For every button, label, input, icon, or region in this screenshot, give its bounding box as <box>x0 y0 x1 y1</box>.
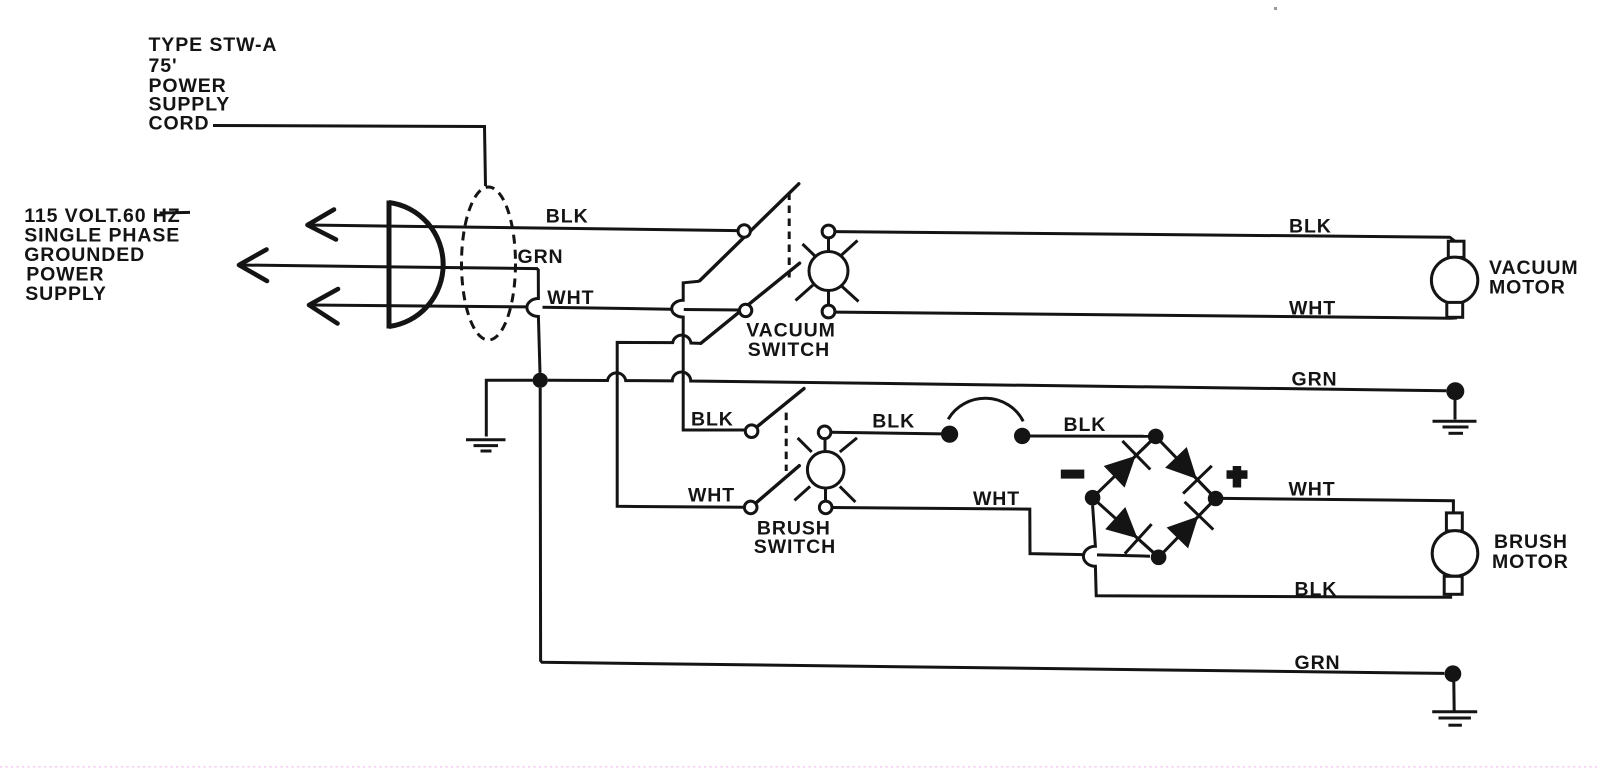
svg-text:BLK: BLK <box>872 411 915 433</box>
svg-text:GRN: GRN <box>1292 368 1338 390</box>
svg-text:WHT: WHT <box>547 287 594 309</box>
svg-text:TYPE STW-A: TYPE STW-A <box>149 34 278 56</box>
svg-text:GRN: GRN <box>1295 652 1341 674</box>
svg-text:SWITCH: SWITCH <box>754 536 836 558</box>
svg-text:BLK: BLK <box>691 409 734 431</box>
svg-text:BLK: BLK <box>1295 578 1338 600</box>
svg-text:GRN: GRN <box>518 246 564 268</box>
svg-text:75': 75' <box>149 55 178 77</box>
svg-text:WHT: WHT <box>1289 478 1336 500</box>
svg-text:MOTOR: MOTOR <box>1489 276 1566 298</box>
svg-text:WHT: WHT <box>688 485 735 507</box>
svg-text:MOTOR: MOTOR <box>1492 551 1569 573</box>
svg-text:CORD: CORD <box>149 113 210 135</box>
svg-text:BLK: BLK <box>1064 414 1107 436</box>
svg-text:SWITCH: SWITCH <box>748 339 830 361</box>
svg-text:WHT: WHT <box>973 488 1020 510</box>
svg-text:SUPPLY: SUPPLY <box>25 283 107 305</box>
svg-text:BLK: BLK <box>1289 215 1332 237</box>
svg-text:WHT: WHT <box>1289 297 1336 319</box>
svg-text:BLK: BLK <box>546 206 589 228</box>
svg-text:BRUSH: BRUSH <box>1494 531 1568 553</box>
